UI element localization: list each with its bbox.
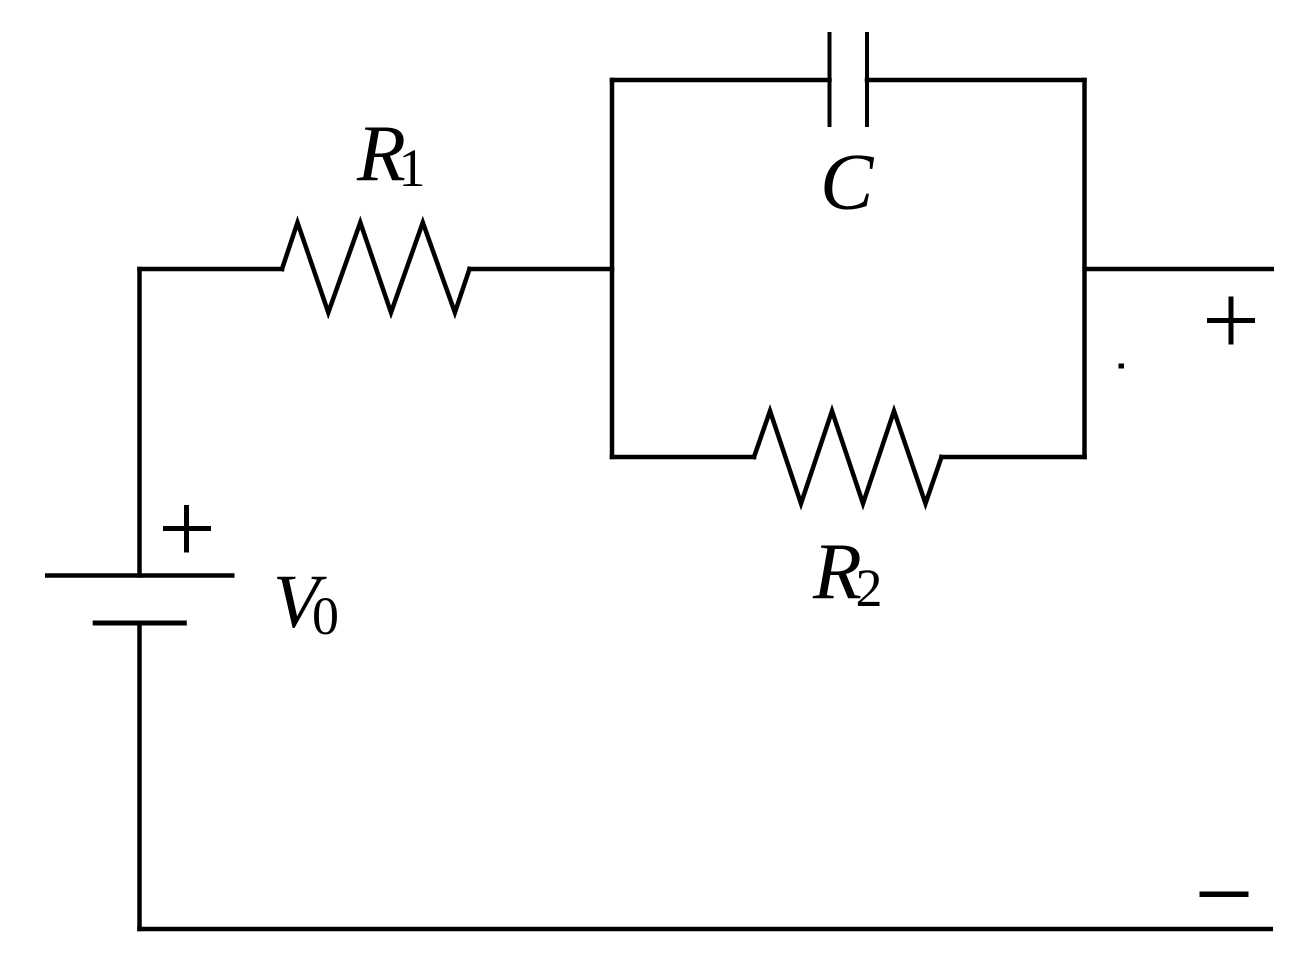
- stray node dot: [1119, 364, 1125, 369]
- svg-text:R: R: [812, 528, 862, 616]
- wire: bottom return: [137, 927, 1273, 932]
- wire: bottom branch right segment: [942, 455, 1085, 460]
- wire: R1 to node A: [470, 267, 613, 272]
- capacitor C plates: [828, 32, 832, 127]
- output terminal minus sign: [1200, 892, 1249, 898]
- wire: battery negative lead down: [137, 623, 142, 929]
- battery V0 long plate (positive): [45, 573, 235, 578]
- resistor R1: [282, 223, 470, 313]
- output terminal plus sign: [1207, 297, 1255, 345]
- svg-text:C: C: [820, 139, 875, 227]
- wire: top branch right segment: [867, 78, 1085, 83]
- svg-text:2: 2: [856, 558, 883, 618]
- svg-text:1: 1: [399, 138, 426, 198]
- battery V0 short plate (negative): [93, 621, 187, 626]
- wire: top branch left segment: [612, 78, 830, 83]
- wire: battery positive to top-left corner: [137, 269, 142, 576]
- resistor R2: [754, 411, 942, 504]
- wire: top-left horizontal to R1: [140, 267, 283, 272]
- wire: parallel-section left vertical (node A riser): [610, 80, 615, 457]
- wire: output positive lead: [1082, 267, 1274, 272]
- svg-text:0: 0: [312, 586, 339, 646]
- battery polarity plus sign: [163, 505, 211, 553]
- wire: parallel-section right vertical (node B): [1082, 80, 1087, 457]
- wire: bottom branch left segment: [612, 455, 754, 460]
